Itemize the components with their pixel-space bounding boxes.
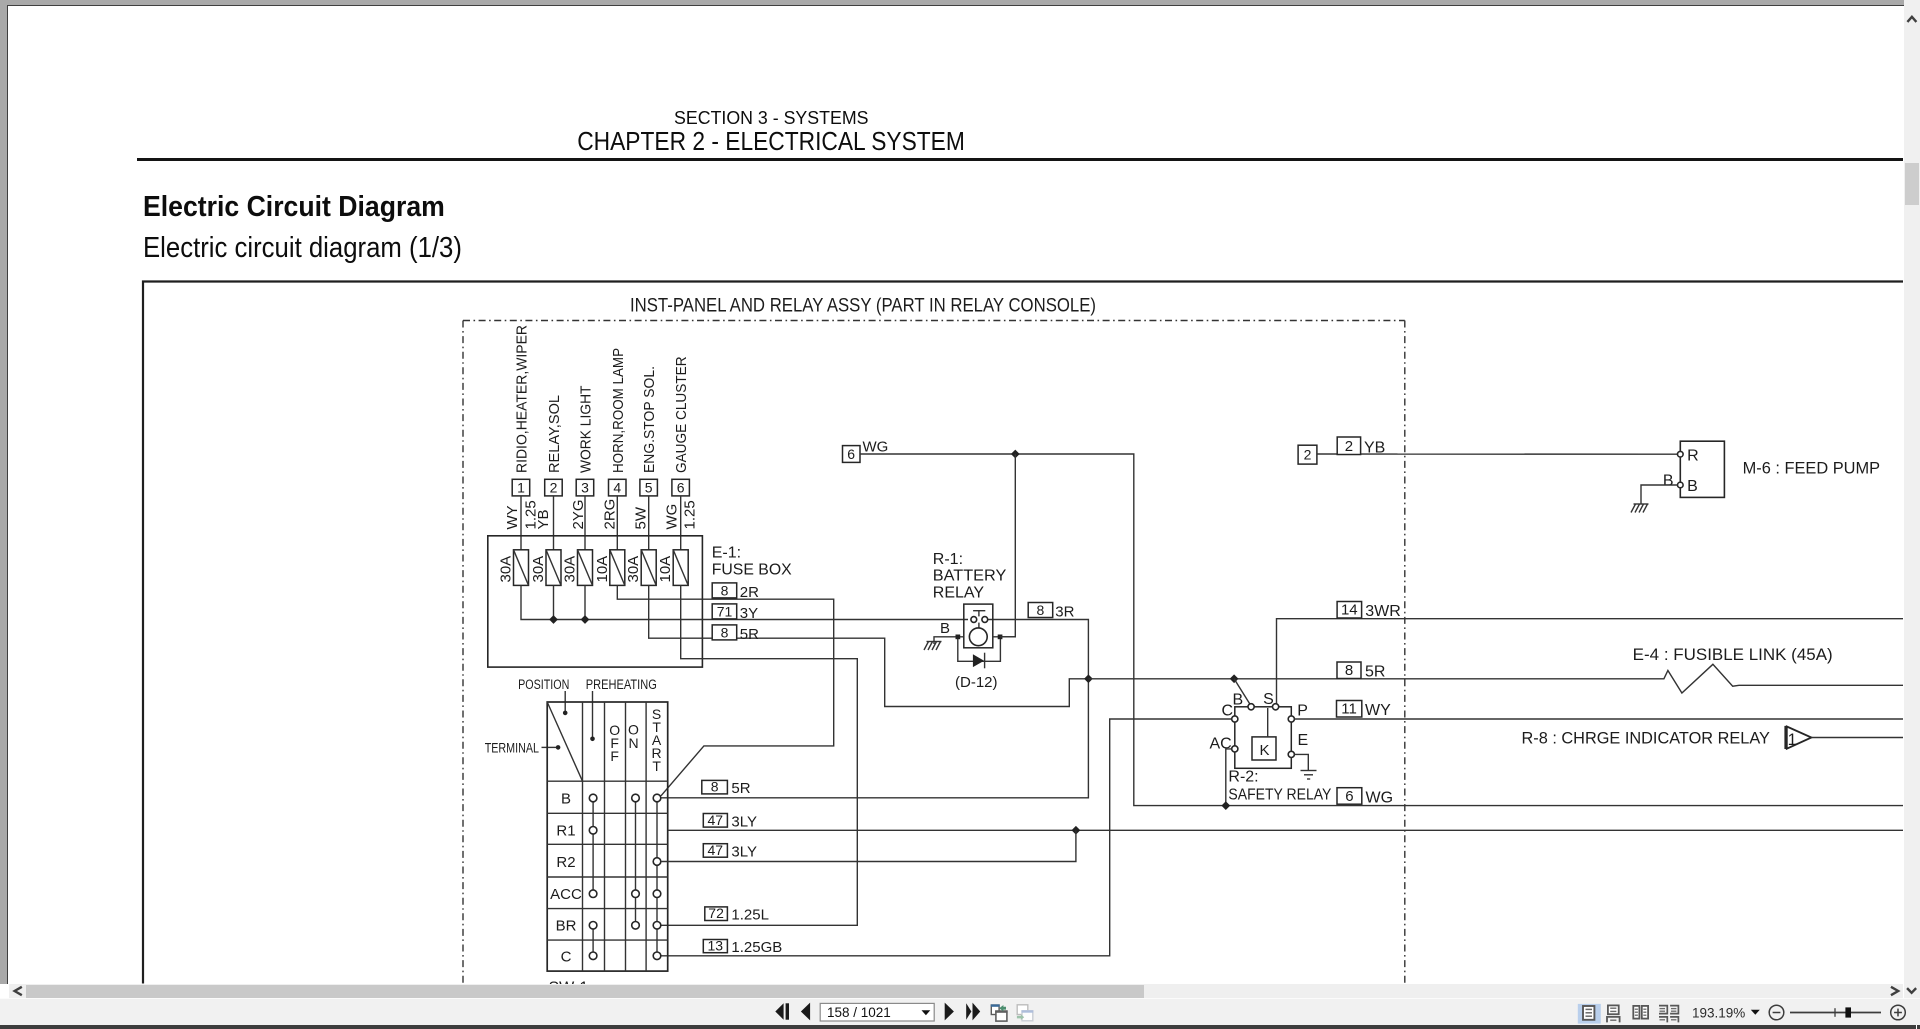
switch col4 link B-BR bbox=[635, 798, 637, 925]
fuse F6 10A bbox=[673, 550, 688, 586]
fuse F2 30A bbox=[546, 550, 561, 586]
hscroll right chevron bbox=[1892, 987, 1898, 994]
wire net 2R from fuse4 to starter switch B terminal bbox=[617, 585, 833, 795]
wire connector2 to fuse2 bbox=[553, 496, 555, 550]
toolbar page number box bbox=[820, 1003, 934, 1021]
starter switch SW-1 table frame bbox=[547, 702, 668, 971]
wire E pin to ground bbox=[1294, 754, 1308, 770]
zoom slider bbox=[1790, 1007, 1881, 1017]
net label 72 1.25L bbox=[705, 905, 769, 924]
junction WG branch bbox=[1011, 450, 1020, 459]
battery relay left pin wire to ground bbox=[934, 637, 964, 644]
switch contacts col2 bbox=[589, 794, 597, 959]
net label 47 3LY at R2 bbox=[703, 842, 757, 861]
safety relay pin letters bbox=[1210, 691, 1309, 752]
junction R2 jog on 3LY bbox=[1072, 826, 1081, 835]
fuse F4 10A bbox=[610, 550, 625, 586]
header: chapter title bbox=[0, 128, 1542, 157]
toolbar next-view icon disabled bbox=[1017, 1005, 1033, 1021]
wire from R-8 triangle bbox=[1811, 737, 1903, 739]
wire connector3 to fuse3 bbox=[584, 496, 586, 550]
leader line POSITION bbox=[564, 691, 566, 711]
net label 8 3R bbox=[1028, 602, 1074, 621]
net label 8 2R bbox=[712, 582, 759, 601]
connector 1 bbox=[512, 479, 530, 496]
junction AC on WG wire bbox=[1221, 801, 1230, 810]
connector 3 bbox=[576, 479, 594, 496]
wire fuse2 stub to 3Y bus bbox=[553, 585, 555, 619]
net label 47 3LY at R1 bbox=[703, 812, 757, 831]
junction safety relay arm on 5R bbox=[1230, 674, 1239, 683]
connector 2 bbox=[545, 479, 563, 496]
feed pump ground wire bbox=[1641, 485, 1678, 504]
net label 8 5R at B row bbox=[702, 779, 751, 797]
wire net 5R right with fusible link E-4 bbox=[1088, 664, 1903, 693]
switch contacts col4 bbox=[632, 794, 640, 929]
wire connector5 to fuse5 bbox=[648, 496, 650, 550]
connector 2 YB stub bbox=[1298, 445, 1317, 464]
wire net 3WR bbox=[1277, 619, 1904, 704]
header START vertical bbox=[652, 706, 662, 774]
wire net WY from P pin bbox=[1294, 718, 1903, 720]
layout two-up continuous button bbox=[1659, 1006, 1678, 1023]
wire net YB to feed pump bbox=[1317, 453, 1678, 455]
net label 11 WY bbox=[1337, 701, 1392, 720]
subheading bbox=[143, 232, 496, 265]
junction battery relay right pin bbox=[998, 635, 1003, 640]
junction fuse2 on 3Y bus bbox=[549, 615, 558, 624]
wire WG branch down to battery relay pin bbox=[1000, 454, 1015, 637]
wire connector6 to fuse6 bbox=[680, 496, 682, 550]
switch table column lines bbox=[583, 702, 647, 971]
wire net 3Y from fuse1 bus to battery relay bbox=[521, 585, 968, 619]
net label 2 YB bbox=[1337, 437, 1385, 457]
safety relay switch arm diagonal bbox=[1234, 679, 1250, 704]
layout facing pages button bbox=[1633, 1006, 1648, 1019]
diode D-12 loop bbox=[958, 639, 1001, 668]
header rule bbox=[137, 158, 1903, 161]
connector 5 bbox=[640, 479, 658, 496]
dot PREHEATING bbox=[590, 737, 595, 742]
net label 8 5R bbox=[712, 624, 759, 643]
safety relay R-2 body bbox=[1232, 704, 1295, 769]
junction battery relay left pin bbox=[956, 635, 961, 640]
wire net 3LY from R2 jog bbox=[661, 830, 1076, 861]
fuse box label E-1: FUSE BOX bbox=[712, 545, 792, 579]
switch col2 link BR-C bbox=[592, 925, 594, 956]
switch col5 link B-C bbox=[656, 798, 658, 956]
fuse F5 30A bbox=[641, 550, 656, 586]
ground chassis at feed pump bbox=[1631, 504, 1649, 513]
toolbar first-page button bbox=[775, 1003, 789, 1019]
connector 6 WG stub at top bbox=[843, 446, 861, 463]
toolbar previous-view icon bbox=[991, 1004, 1008, 1021]
net label 14 3WR bbox=[1337, 602, 1401, 621]
R-8 connector triangle bbox=[1786, 726, 1812, 749]
wire net WG from connector 6 down to safety relay area bbox=[860, 454, 1903, 806]
wire net WG/1.25L from fuse6 to BR terminal bbox=[661, 585, 858, 925]
toolbar last-page button bbox=[966, 1003, 980, 1021]
dot POSITION bbox=[563, 711, 568, 716]
leader line TERMINAL bbox=[542, 746, 557, 748]
dashed console border left bbox=[462, 321, 464, 984]
net label 71 3Y bbox=[712, 603, 758, 622]
wire fuse3 stub to 3Y bus bbox=[584, 585, 586, 619]
switch col2 link B-R1-ACC bbox=[592, 798, 594, 894]
dashed console border top bbox=[463, 320, 1405, 322]
junction 5R/3R vertical bbox=[1084, 674, 1093, 683]
zoom dropdown caret bbox=[1751, 1010, 1760, 1015]
ground IEC at safety relay E bbox=[1301, 771, 1317, 780]
heading: Electric Circuit Diagram bbox=[143, 191, 466, 224]
vscroll down chevron bbox=[1908, 989, 1915, 993]
svg-text:158 / 1021: 158 / 1021 bbox=[827, 1005, 891, 1020]
feed pump M-6 bbox=[1678, 441, 1725, 497]
wire net 3LY from R1 bbox=[668, 829, 1903, 831]
connector 6 bbox=[672, 479, 690, 496]
fuse F3 30A bbox=[578, 550, 593, 586]
battery relay R-1 body bbox=[964, 604, 993, 648]
wire AC pin to WG bbox=[1226, 749, 1232, 806]
header: section title bbox=[0, 107, 1542, 129]
wire connector1 to fuse1 bbox=[520, 496, 522, 550]
ground chassis at battery relay bbox=[924, 642, 942, 651]
layout single page button selected bbox=[1578, 1004, 1601, 1024]
schematic outer frame bbox=[143, 282, 1903, 984]
toolbar prev-page button bbox=[801, 1003, 810, 1021]
fuse box E-1 bbox=[488, 536, 703, 667]
fuse F1 30A bbox=[514, 550, 529, 586]
leader line PREHEATING bbox=[592, 691, 594, 737]
header OFF vertical bbox=[609, 722, 620, 764]
svg-text:193.19%: 193.19% bbox=[1692, 1005, 1745, 1020]
net label 6 WG right bbox=[1337, 788, 1393, 807]
safety relay label R-2: SAFETY RELAY bbox=[1228, 769, 1331, 804]
toolbar next-page button bbox=[945, 1003, 954, 1021]
dashed console border right bbox=[1404, 321, 1406, 984]
zoom out button bbox=[1769, 1005, 1784, 1020]
wire net GB from safety relay C pin to switch C terminal bbox=[661, 719, 1232, 956]
wire connector4 to fuse4 bbox=[616, 496, 618, 550]
hscroll left chevron bbox=[15, 987, 21, 994]
battery relay right pin wire bbox=[993, 636, 1016, 638]
zoom in button bbox=[1891, 1005, 1906, 1020]
switch header diagonal bbox=[547, 702, 582, 781]
header ON vertical bbox=[628, 722, 639, 752]
switch contacts col5 bbox=[653, 794, 661, 959]
dot TERMINAL bbox=[556, 745, 561, 750]
layout continuous button bbox=[1607, 1005, 1620, 1022]
net label 8 5R right bbox=[1337, 662, 1385, 681]
connector 4 bbox=[609, 479, 627, 496]
wire net 3R from battery relay contact down to B row bbox=[661, 620, 1089, 798]
battery relay R-1 label bbox=[933, 551, 1007, 602]
junction fuse3 on 3Y bus bbox=[581, 615, 590, 624]
vscroll up chevron bbox=[1908, 17, 1915, 21]
wire net 5R from fuse5 to junction bbox=[649, 585, 1089, 706]
switch table row lines bbox=[547, 781, 668, 940]
net label 13 1.25GB bbox=[703, 938, 782, 957]
